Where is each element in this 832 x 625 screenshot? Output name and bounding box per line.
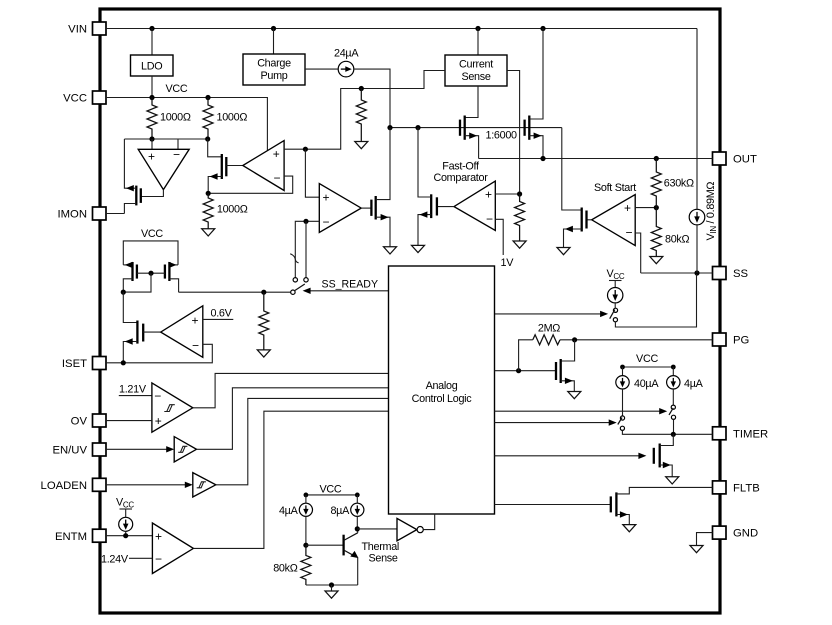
ground (Q4) xyxy=(384,247,397,254)
resistor (fast-off threshold) xyxy=(515,194,525,241)
svg-text:+: + xyxy=(148,150,155,164)
wire sense node down to A3 plus xyxy=(305,149,319,197)
node PG gate tap xyxy=(516,368,521,373)
node VCC-R2 xyxy=(205,95,210,100)
svg-text:1000Ω: 1000Ω xyxy=(217,204,248,216)
ground (GND pin) xyxy=(690,546,703,553)
svg-text:IMON: IMON xyxy=(58,209,88,221)
pin GND xyxy=(713,526,759,540)
svg-text:EN/UV: EN/UV xyxy=(52,445,87,457)
wire 2M left leg xyxy=(519,340,533,371)
op-amp A4 Fast-Off (points left) xyxy=(454,181,495,230)
wire VIN rail xyxy=(106,28,697,30)
svg-text:Sense: Sense xyxy=(461,71,490,83)
wire to inverter xyxy=(357,528,397,530)
current source 4uA (timer) xyxy=(667,367,704,405)
svg-text:Analog: Analog xyxy=(426,380,458,392)
transistor Q9 (FLTB) xyxy=(611,487,713,524)
hysteresis glyph A8 xyxy=(178,446,187,452)
ground (80k) xyxy=(650,257,663,264)
svg-text:−: − xyxy=(192,338,199,352)
node VCC-R1 xyxy=(149,95,154,100)
wire A4 output to Q5 gate xyxy=(437,206,454,208)
svg-text:Pump: Pump xyxy=(260,70,287,82)
svg-text:80kΩ: 80kΩ xyxy=(665,234,690,246)
op-amp A3 (middle, points right) xyxy=(319,184,361,233)
svg-text:OV: OV xyxy=(71,416,88,428)
svg-text:630kΩ: 630kΩ xyxy=(664,178,694,190)
wire logic to FLTB gate xyxy=(495,504,611,506)
wire IMON pin xyxy=(106,213,124,215)
wire A2 minus feedback xyxy=(208,176,293,193)
svg-text:Fast-Off: Fast-Off xyxy=(442,161,480,173)
svg-text:VIN: VIN xyxy=(68,24,87,36)
block Current Sense xyxy=(445,55,507,86)
wire A8 output to logic xyxy=(197,388,389,450)
svg-text:Sense: Sense xyxy=(369,553,398,565)
switch SS pullup contact bottom xyxy=(613,318,617,322)
svg-text:1.24V: 1.24V xyxy=(101,553,129,565)
wire ISET pin xyxy=(106,362,123,364)
switch SS pullup contact top xyxy=(613,308,617,312)
pin FLTB xyxy=(713,481,760,495)
resistor (switch pulldown) xyxy=(259,292,269,350)
wire OV pin to A7 plus xyxy=(106,420,152,422)
transistor Q6 (soft start) xyxy=(564,208,587,248)
resistor R 1000ohm (middle) xyxy=(203,98,213,140)
op-amp A5 (0.6V, points left) xyxy=(161,306,203,358)
svg-text:1000Ω: 1000Ω xyxy=(217,112,248,124)
wire sense-node to Current Sense left input xyxy=(305,71,445,150)
wire A3 minus to switch contact xyxy=(305,221,307,277)
transistor Q7 (PG pulldown) xyxy=(556,340,575,392)
block Analog Control Logic xyxy=(389,266,495,514)
svg-text:1:6000: 1:6000 xyxy=(486,130,518,142)
op-amp A1 (IMON amp, points down) xyxy=(138,149,189,189)
transistor Q4 xyxy=(371,128,390,247)
wire SS pullup control from logic xyxy=(495,313,602,315)
svg-text:4µA: 4µA xyxy=(684,378,704,390)
wire 4uA switch to TIMER line xyxy=(673,419,675,434)
inverter U1 xyxy=(397,518,417,540)
pin PG xyxy=(713,333,750,347)
node VIN-LDO junction xyxy=(149,26,154,31)
wire base xyxy=(306,544,344,546)
switch 40uA contact top xyxy=(620,416,624,420)
node Q2 source / R3 top xyxy=(206,191,211,196)
wire logic to timer FET gate xyxy=(495,455,640,457)
transistor Q5 (fast-off pull) xyxy=(418,128,437,246)
resistor (sense bias) xyxy=(356,89,366,142)
svg-text:Current: Current xyxy=(459,59,493,71)
ground (Q6) xyxy=(557,248,570,255)
wire LOADEN pin to A9 xyxy=(106,484,185,486)
svg-text:Soft Start: Soft Start xyxy=(594,182,636,194)
wire A6 plus input xyxy=(635,207,656,209)
svg-text:SS: SS xyxy=(733,268,749,280)
svg-text:+: + xyxy=(273,147,280,161)
wire Current Sense right output xyxy=(507,71,520,195)
wire EN/UV pin to A8 xyxy=(106,448,167,450)
svg-text:Comparator: Comparator xyxy=(433,172,488,184)
switch 40uA lever xyxy=(618,418,622,425)
svg-text:24µA: 24µA xyxy=(334,48,359,60)
svg-text:ENTM: ENTM xyxy=(55,531,87,543)
svg-text:+: + xyxy=(323,191,330,205)
svg-text:−: − xyxy=(173,148,180,162)
resistor 2M xyxy=(533,335,560,345)
resistor 80k (thermal) xyxy=(301,545,311,585)
pin VIN xyxy=(68,22,106,36)
svg-text:PG: PG xyxy=(733,335,749,347)
node divider mid xyxy=(654,205,659,210)
transistor Q8 (timer discharge) xyxy=(654,434,674,477)
node SS junction xyxy=(694,270,699,275)
wire VCC rail (thermal) xyxy=(306,494,357,496)
ground (Q8) xyxy=(666,477,679,484)
resistor 630k xyxy=(651,159,661,208)
svg-text:+: + xyxy=(624,201,631,215)
wire A6 minus to SS xyxy=(635,233,641,273)
pin ISET xyxy=(62,357,106,371)
svg-text:Control Logic: Control Logic xyxy=(412,393,473,405)
wire A3 output to Q4 gate xyxy=(361,207,371,209)
svg-text:−: − xyxy=(626,225,633,239)
resistor R 1000ohm (bottom) xyxy=(203,193,213,229)
switch SS_READY lever xyxy=(294,284,305,291)
wire diode connection xyxy=(123,273,151,292)
svg-text:TIMER: TIMER xyxy=(733,428,768,440)
ground (R3) xyxy=(202,229,215,236)
op-amp A10 ENTM comparator (points right) xyxy=(152,523,193,574)
hysteresis glyph A9 xyxy=(197,482,206,488)
wire A5 plus 0.6V stub xyxy=(203,318,234,320)
node P1 drain xyxy=(121,290,126,295)
current source ENTM pullup xyxy=(119,509,133,536)
wire 1.21V ref to A7 minus xyxy=(119,395,152,397)
node TIMER xyxy=(671,432,676,437)
wire LDO to VCC rail xyxy=(151,76,153,98)
svg-text:FLTB: FLTB xyxy=(733,483,760,495)
svg-text:4µA: 4µA xyxy=(279,505,299,517)
wire A3 minus node xyxy=(295,221,319,277)
op-amp A6 Soft Start (points left) xyxy=(592,195,636,246)
transistor mirror M2 xyxy=(525,29,543,159)
node 630k top on OUT xyxy=(654,156,659,161)
svg-text:GND: GND xyxy=(733,528,758,540)
wire A10 output to logic xyxy=(193,411,388,548)
wire A4 minus 1V ref stub xyxy=(495,219,503,255)
wire Q3 gate to A5 output xyxy=(143,331,161,333)
wire switch to SS node xyxy=(615,274,696,327)
wire A5 minus to ISET xyxy=(123,344,212,363)
svg-text:−: − xyxy=(154,389,161,403)
node gate rail left xyxy=(387,125,392,130)
wire rail to amp1 minus xyxy=(177,139,179,149)
wire A6 output to Q6 gate xyxy=(587,219,592,221)
svg-text:OUT: OUT xyxy=(733,154,757,166)
pin VCC xyxy=(63,91,106,105)
wire Current Sense bottom to mirror M1 drain xyxy=(465,86,478,118)
svg-text:−: − xyxy=(155,552,162,566)
wire 1.24V ref to A10 minus xyxy=(129,557,152,559)
svg-text:VCC: VCC xyxy=(320,484,342,496)
block Charge Pump xyxy=(243,54,305,85)
svg-text:VCC: VCC xyxy=(141,228,163,240)
op-amp A2 (points left) xyxy=(243,141,284,191)
node R2 bottom xyxy=(205,136,210,141)
block LDO xyxy=(131,55,174,76)
svg-text:0.6V: 0.6V xyxy=(211,308,233,320)
wire SS line xyxy=(641,272,713,274)
switch 4uA lever xyxy=(669,408,673,415)
current source 8uA (thermal) xyxy=(330,495,363,529)
wire GND pin to ground xyxy=(697,533,713,546)
transistor Q3 (ISET) xyxy=(123,321,143,363)
pin OV xyxy=(71,414,106,428)
current source VIN/0.89M xyxy=(689,29,705,274)
node R6 tap xyxy=(261,290,266,295)
ground (thermal) xyxy=(331,585,333,591)
pin IMON xyxy=(58,207,107,221)
wire amp1 output to Q1 gate xyxy=(141,190,163,197)
current source 40uA xyxy=(616,367,660,416)
label PG wire xyxy=(560,339,713,341)
node VIN-ChargePump junction xyxy=(271,26,276,31)
node inverter input xyxy=(355,526,360,531)
wire OUT line xyxy=(479,158,713,160)
resistor 80k xyxy=(651,208,661,257)
svg-text:8µA: 8µA xyxy=(330,505,350,517)
transistor Q1 (IMON) xyxy=(124,139,140,214)
wire 40uA switch control xyxy=(495,422,611,424)
ground (fast-off resistor) xyxy=(513,241,526,248)
node thermal base xyxy=(303,543,308,548)
transistor P1 (left PMOS) xyxy=(123,262,137,292)
pin SS xyxy=(713,267,749,281)
svg-text:Thermal: Thermal xyxy=(362,541,400,553)
wire PMOS gate tie xyxy=(137,272,165,274)
wire TIMER line xyxy=(622,430,712,434)
node gate tie xyxy=(148,271,153,276)
wire 24uA to gate rail xyxy=(354,69,390,128)
contact circle left xyxy=(293,278,297,282)
wire P2 drain to switch common xyxy=(179,291,291,293)
wire gate rail to softstart FET drain xyxy=(562,128,582,210)
transistor mirror M1 xyxy=(460,116,479,159)
ground (Q9) xyxy=(623,525,636,532)
node sense xyxy=(303,147,308,152)
wire logic to PG gate xyxy=(495,370,557,372)
svg-text:VCC: VCC xyxy=(63,93,87,105)
svg-text:2MΩ: 2MΩ xyxy=(538,323,560,335)
transistor Q2 (sense) xyxy=(208,154,243,193)
pin OUT xyxy=(713,152,757,166)
supply bar ENTM pullup xyxy=(120,508,133,510)
buffer A8 EN/UV (points right) xyxy=(174,437,196,462)
pin LOADEN xyxy=(41,478,106,492)
svg-text:Charge: Charge xyxy=(257,58,291,70)
svg-text:1.21V: 1.21V xyxy=(119,384,147,396)
switch SS pullup lever xyxy=(610,310,615,319)
svg-text:80kΩ: 80kΩ xyxy=(273,563,298,575)
switch 4uA contact top xyxy=(671,405,675,409)
resistor R 1000ohm (left) xyxy=(147,98,157,140)
svg-text:SS_READY: SS_READY xyxy=(322,278,379,290)
pin ENTM xyxy=(55,529,106,543)
svg-text:LOADEN: LOADEN xyxy=(41,480,87,492)
wire ENTM pin to A10 plus xyxy=(106,535,152,537)
wire rail to amp1 plus xyxy=(151,139,153,149)
wire mirror gate rail xyxy=(390,127,562,129)
wire VCC rail (timer) xyxy=(623,366,674,368)
node VIN-CurrentSense junction xyxy=(475,26,480,31)
wire thermal bottom rail xyxy=(306,584,358,586)
switch 40uA contact bottom xyxy=(620,426,624,430)
current source VCC pullup xyxy=(608,281,623,309)
pin EN/UV xyxy=(52,443,106,457)
svg-text:1000Ω: 1000Ω xyxy=(160,112,191,124)
node PG xyxy=(572,337,577,342)
wire VIN to LDO xyxy=(151,29,153,56)
buffer A9 LOADEN (points right) xyxy=(193,473,216,497)
wire amp1 input rail xyxy=(124,138,207,140)
hysteresis glyph A7 xyxy=(164,405,175,412)
node M2 source on OUT xyxy=(540,156,545,161)
svg-text:+: + xyxy=(155,530,162,544)
svg-text:+: + xyxy=(485,188,492,202)
wire A4 plus input xyxy=(495,193,519,195)
svg-text:VCC: VCC xyxy=(636,353,658,365)
ground (Q7) xyxy=(568,392,581,399)
svg-text:LDO: LDO xyxy=(141,61,162,73)
node ISET xyxy=(121,360,126,365)
wire R2 bottom to Q2 drain xyxy=(208,139,222,157)
node ENTM xyxy=(123,533,128,538)
node 24uA-resistor tap xyxy=(359,86,364,91)
wire Charge Pump to 24uA source xyxy=(305,68,338,70)
node fastoff plus xyxy=(517,191,522,196)
current source 4uA (thermal) xyxy=(279,495,313,545)
svg-text:−: − xyxy=(486,212,493,226)
node A3 minus xyxy=(303,219,308,224)
svg-text:ISET: ISET xyxy=(62,358,87,370)
chip body outline xyxy=(100,9,720,613)
ground (switch pulldown) xyxy=(257,350,270,357)
current source 24uA xyxy=(334,48,359,77)
wire inverter output to logic xyxy=(423,514,434,530)
node gate rail fastoff tap xyxy=(415,125,420,130)
wire VIN to Charge Pump xyxy=(273,29,275,55)
svg-text:40µA: 40µA xyxy=(634,378,659,390)
transistor QT thermal NPN xyxy=(344,529,359,585)
ground (sense bias resistor) xyxy=(355,142,368,149)
svg-text:+: + xyxy=(155,414,162,428)
wire SS_READY control xyxy=(309,290,389,292)
ground (Q5) xyxy=(412,245,425,252)
wire P1 drain down to Q3 drain xyxy=(123,292,137,322)
wire A7 output to logic xyxy=(193,373,389,407)
pin TIMER xyxy=(713,427,769,441)
svg-text:1V: 1V xyxy=(501,257,515,269)
transistor P2 (right PMOS) xyxy=(165,262,179,293)
svg-text:+: + xyxy=(192,314,199,328)
switch 4uA contact bottom xyxy=(671,415,675,419)
op-amp A7 OV comparator (points right) xyxy=(152,383,193,432)
wire VIN to Current Sense top xyxy=(477,29,479,56)
tick on left switch wire xyxy=(290,254,298,263)
node VIN-mirror junction xyxy=(540,26,545,31)
wire VCC top rail of PMOS pair xyxy=(123,241,178,265)
svg-text:−: − xyxy=(323,215,330,229)
wire A9 output to logic xyxy=(216,398,389,484)
switch SS_READY pivot xyxy=(291,290,295,294)
contact circle right xyxy=(304,278,308,282)
wire A2 plus input xyxy=(284,148,305,150)
svg-text:VCC: VCC xyxy=(166,83,188,95)
node R1 bottom xyxy=(149,136,154,141)
wire 4uA switch control xyxy=(495,410,661,412)
supply bar VCC pullup xyxy=(609,280,622,282)
wire VCC rail xyxy=(106,98,267,151)
svg-text:−: − xyxy=(274,171,281,185)
